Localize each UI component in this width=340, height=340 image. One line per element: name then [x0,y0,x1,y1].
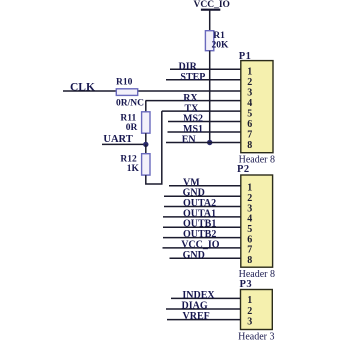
node STEP [180,72,205,83]
wire INDEX [171,297,241,299]
connector P1 [239,51,275,166]
node MS1 [183,124,203,135]
node VCC_IO pin7 [181,239,220,250]
node GND pin8 [183,250,205,261]
svg-text:4: 4 [247,98,252,109]
svg-text:R1: R1 [213,31,225,41]
svg-text:VM: VM [183,177,200,188]
node INDEX [182,290,215,301]
svg-text:OUTB1: OUTB1 [183,219,216,230]
node UART [103,134,132,145]
svg-text:MS1: MS1 [183,124,203,135]
node OUTB1 [183,219,216,230]
wire UART [102,143,146,145]
svg-text:VREF: VREF [183,311,210,322]
wire OUTA2 [164,206,241,208]
svg-text:6: 6 [247,119,252,130]
svg-text:3: 3 [247,87,252,98]
wire GND pin2 [164,195,241,197]
node OUTA1 [183,208,216,219]
pin 5 P2 [247,224,252,235]
resistor R1 [205,31,229,51]
node DIR [179,61,198,72]
svg-text:EN: EN [182,135,197,146]
pin 2 P1 [247,77,252,88]
svg-text:P2: P2 [237,164,250,175]
svg-text:1: 1 [247,183,252,194]
junction dot on EN [207,140,212,145]
power VCC_IO bar [201,9,220,11]
node MS2 [183,114,203,125]
svg-text:7: 7 [247,129,252,140]
pin 4 P2 [247,214,252,225]
wire R11 to UART node [145,133,147,144]
svg-text:RX: RX [183,93,198,104]
pin 7 P2 [247,245,252,256]
svg-text:R10: R10 [116,78,133,88]
pin 1 P3 [247,295,252,306]
node OUTA2 [183,198,216,209]
wire VCC_IO pin7 [163,247,241,249]
wire VCC_IO stem [209,10,211,31]
wire VM [169,185,241,187]
svg-text:Header 3: Header 3 [238,332,274,340]
svg-text:INDEX: INDEX [182,290,215,301]
svg-text:20K: 20K [212,41,230,51]
node RX [183,93,198,104]
wire TX [162,110,241,112]
pin 8 P2 [247,255,252,266]
wire RX [146,100,241,102]
svg-text:R11: R11 [120,113,136,123]
svg-text:5: 5 [247,224,252,235]
svg-text:1: 1 [247,295,252,306]
svg-text:DIAG: DIAG [182,301,208,312]
pin 6 P1 [247,119,252,130]
wire VREF [167,319,241,321]
wire MS2 [168,121,241,123]
svg-text:STEP: STEP [180,72,205,83]
node TX [185,103,200,114]
svg-text:7: 7 [247,245,252,256]
svg-text:1K: 1K [127,164,140,174]
svg-text:P3: P3 [240,279,253,290]
pin 5 P1 [247,108,252,119]
svg-text:0R: 0R [126,123,138,133]
connector P3 [238,279,274,340]
pin 1 P2 [247,183,252,194]
resistor R12 [120,154,150,175]
wire CLK to R10 [63,90,117,92]
pin 3 P3 [247,316,252,327]
wire MS1 [168,131,241,133]
pin 3 P1 [247,87,252,98]
svg-text:UART: UART [103,134,132,145]
wire EN [166,142,241,144]
pin 7 P1 [247,129,252,140]
wire OUTA1 [163,216,241,218]
svg-text:VCC_IO: VCC_IO [181,239,220,250]
wire DIR [170,68,241,70]
junction dot UART [143,142,148,147]
resistor R11 [120,112,150,133]
svg-text:1: 1 [247,67,252,78]
pin 1 P1 [247,67,252,78]
wire STEP [166,79,241,81]
svg-text:OUTA2: OUTA2 [183,198,216,209]
wire OUTB2 [163,237,241,239]
connector P2 [237,164,275,280]
svg-text:VCC_IO: VCC_IO [194,0,230,10]
svg-text:2: 2 [247,306,252,317]
svg-text:DIR: DIR [179,61,198,72]
wire OUTB1 [163,226,241,228]
svg-text:GND: GND [183,250,205,261]
svg-text:3: 3 [247,316,252,327]
wire R1 to EN [209,51,211,143]
wire RX drop to R11 [145,101,147,112]
power VCC_IO label [194,0,230,10]
node EN [182,135,197,146]
svg-text:5: 5 [247,108,252,119]
wire DIAG [166,308,241,310]
node DIAG [182,301,208,312]
wire R12 bottom to TX [146,111,162,184]
wire UART node to R12 [145,144,147,153]
svg-text:0R/NC: 0R/NC [116,99,144,109]
wire R10 to pin3 [138,90,241,92]
pin 6 P2 [247,234,252,245]
pin 8 P1 [247,140,252,151]
svg-text:8: 8 [247,140,252,151]
svg-text:3: 3 [247,203,252,214]
pin 3 P2 [247,203,252,214]
node VREF [183,311,210,322]
resistor R10 [116,78,144,109]
svg-text:2: 2 [247,77,252,88]
pin 4 P1 [247,98,252,109]
pin 2 P2 [247,193,252,204]
svg-text:8: 8 [247,255,252,266]
node GND pin2 [183,188,205,199]
node VM [183,177,200,188]
wire GND pin8 [170,257,241,259]
svg-text:R12: R12 [120,154,137,164]
pin 2 P3 [247,306,252,317]
svg-text:P1: P1 [239,51,252,62]
node OUTB2 [183,229,216,240]
node CLK [70,81,95,93]
svg-text:MS2: MS2 [183,114,203,125]
